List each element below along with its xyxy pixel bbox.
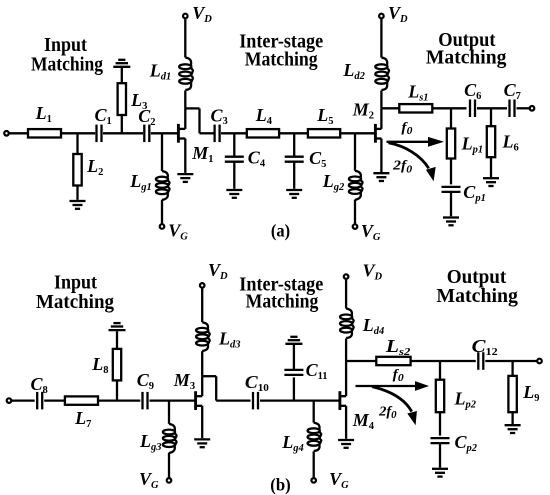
capacitor C11 [284,369,303,371]
transistor M1 [178,124,185,143]
svg-text:Ld1: Ld1 [149,61,172,83]
svg-text:Input: Input [54,273,97,294]
svg-text:Lg2: Lg2 [322,171,345,193]
node VD node (b2) (port) [344,274,349,279]
wire M4 drain line to Ls2 [346,360,376,362]
transistor M3 [196,391,203,410]
wire M3 drain jog top [202,375,216,377]
capacitor Cp1 [442,186,461,188]
inductor Ld3 [196,322,210,351]
svg-text:2f0: 2f0 [392,159,413,176]
wire L1 to C1 [61,132,95,134]
ground [226,190,242,198]
wire Ld2 to VD [380,19,382,58]
inductor Ls2 [376,357,410,365]
svg-text:(b): (b) [270,475,290,495]
svg-text:Ld3: Ld3 [218,329,241,351]
svg-text:C7: C7 [504,80,521,102]
inductor L7 [65,396,98,404]
wire Lg1 to VG [161,200,163,225]
node input port (b) (port) [7,398,12,403]
svg-text:2f0: 2f0 [378,404,397,421]
ground [194,439,210,447]
transistor M4 [340,391,346,410]
wire Lp2 to Cp2 [439,412,441,435]
wire M4 drain to Ld4 [345,339,347,362]
wire C5 to ground [293,162,295,189]
inductor Lg4 [308,423,322,451]
wire junction to C4 [233,133,235,156]
svg-text:Ls1: Ls1 [407,82,428,104]
wire Cp2 to ground [439,443,441,468]
wire junction to L8 [116,380,118,400]
ground [443,218,459,226]
inductor L1 [28,129,61,137]
arrow f0 (b) [356,381,430,391]
svg-text:M3: M3 [173,370,195,392]
wire M3 drain to Ld3 [201,351,203,376]
svg-text:(a): (a) [271,221,290,242]
wire junction to L2 [76,133,78,154]
wire C11 to upper ground [293,345,295,370]
ground [505,425,521,433]
wire L2 to ground [76,186,78,200]
wire Ld3 to VD [201,288,203,322]
wire C2 to M1 gate [151,132,178,134]
node VD node (b1) (port) [200,283,205,288]
wire M1 drain up [184,108,186,128]
capacitor C3 [213,125,215,143]
inductor Lp2 [436,380,444,413]
svg-text:M2: M2 [352,100,374,122]
inductor L2 [73,154,81,186]
svg-text:VG: VG [168,221,188,243]
wire L3 to upper ground [121,68,123,83]
inductor Ld2 [375,58,389,91]
wire M1 drain jog down [198,108,200,133]
svg-text:M1: M1 [191,143,213,165]
node VG node (a1) (port) [160,224,165,229]
capacitor C4 [225,156,244,158]
ground [338,440,354,448]
svg-text:Ld2: Ld2 [342,60,365,82]
svg-text:M4: M4 [352,410,375,432]
wire L8 to upper ground [116,331,118,349]
svg-text:f0: f0 [393,367,405,384]
svg-text:Lp2: Lp2 [454,389,477,411]
svg-text:Matching: Matching [36,292,114,313]
wire M1 drain to C3 [200,132,215,134]
svg-text:VG: VG [361,221,381,243]
wire Ld1 to VD [184,19,186,58]
wire M1 source down [184,139,186,173]
svg-text:C10: C10 [245,372,269,394]
wire junction to Lg3 [168,401,170,424]
capacitor C2 [143,125,145,143]
node VD node (a1) (port) [183,14,188,19]
ground [373,173,389,181]
svg-text:Matching: Matching [245,49,318,70]
wire L7 to C9 [98,399,140,401]
capacitor C7 [508,100,510,118]
node input port (a) (port) [4,131,9,136]
wire junction to L9 [511,361,513,376]
svg-text:Matching: Matching [426,48,507,69]
wire M2 drain up [380,108,382,129]
arrow 2f0 (b) [372,387,417,426]
wire Cp1 to ground [450,192,452,216]
wire junction to Lp1 [450,108,452,128]
svg-text:C4: C4 [248,148,266,170]
wire M1 drain jog top [185,107,199,109]
inductor L9 [508,376,516,412]
svg-text:VD: VD [208,260,228,282]
wire C8 to L7 [44,399,65,401]
inductor Lg3 [163,424,177,453]
wire M3 drain up [201,376,203,396]
svg-text:VG: VG [139,469,159,491]
svg-text:Lg1: Lg1 [129,171,152,193]
node VG node (b1) (port) [167,478,172,483]
svg-text:f0: f0 [401,120,413,137]
ground (upward) [109,323,126,330]
wire junction to C5 [293,133,295,156]
wire Ls2 to C12 [411,360,476,362]
wire junction to Lg1 [161,133,163,171]
svg-text:C5: C5 [309,148,326,170]
capacitor C8 [36,392,38,410]
svg-text:VD: VD [192,3,212,25]
inductor L8 [113,349,121,381]
svg-text:Lg4: Lg4 [281,432,304,454]
inductor Lg2 [349,171,363,200]
svg-text:C2: C2 [138,106,155,128]
capacitor C9 [141,392,143,410]
inductor Ld1 [179,58,193,91]
wire C12 to L9 [485,360,537,362]
wire M2 source down [380,139,382,173]
arrow 2f0 (a) [389,143,436,181]
wire C10 to M4 gate [260,399,339,401]
svg-text:C6: C6 [464,80,481,102]
wire Lg2 to VG [354,200,356,225]
svg-text:Cp1: Cp1 [463,182,486,204]
wire Lp1 to Cp1 [450,159,452,185]
wire junction to L3 [121,115,123,133]
svg-text:VD: VD [363,261,383,283]
wire L4 to L5 [279,132,308,134]
wire C7 to output [517,107,530,109]
svg-text:Matching: Matching [246,292,319,313]
wire M3 source down [201,406,203,438]
svg-text:C3: C3 [211,105,228,127]
node output port (a) (port) [530,106,535,111]
capacitor C10 [252,392,254,410]
svg-text:Input: Input [44,35,87,56]
svg-text:L6: L6 [502,132,519,154]
wire M3 drain to C10 [216,399,250,401]
capacitor C12 [477,352,479,370]
wire input to L1 [9,132,28,134]
capacitor Cp2 [431,437,450,439]
svg-text:L4: L4 [255,105,273,127]
wire junction to Lp2 [439,361,441,380]
wire L5 to M2 gate [340,132,375,134]
wire Ld4 to VD [345,280,347,309]
inductor Ls1 [399,104,432,112]
svg-text:L5: L5 [316,105,333,127]
svg-text:L1: L1 [35,103,52,125]
inductor L6 [487,126,495,157]
svg-text:C8: C8 [31,374,48,396]
ground [432,469,448,477]
wire L6 to ground [490,157,492,177]
wire C4 to ground [233,162,235,189]
ground (upward) [113,60,130,67]
svg-text:C11: C11 [306,360,328,382]
inductor L5 [308,129,340,137]
ground (upward) [285,337,302,344]
wire Ls1 to C6 [432,107,466,109]
node output port (b) (port) [537,359,542,364]
ground [483,178,499,186]
svg-text:L7: L7 [74,408,91,430]
wire L9 to ground [511,412,513,424]
capacitor C1 [95,125,97,143]
wire C9 to M3 gate [150,399,196,401]
ground [286,190,302,198]
wire M4 drain up [345,361,347,396]
svg-text:Ld4: Ld4 [362,315,385,337]
svg-text:Output: Output [447,267,507,288]
svg-text:L2: L2 [86,156,103,178]
wire M3 drain jog down [215,376,217,400]
wire Lg3 to VG [168,453,170,478]
ground [177,174,193,182]
svg-text:Matching: Matching [436,286,518,307]
svg-text:C9: C9 [137,370,154,392]
svg-text:Lp1: Lp1 [461,134,484,156]
capacitor C5 [285,156,304,158]
svg-text:C12: C12 [472,336,498,358]
inductor L4 [247,129,279,137]
svg-text:L8: L8 [91,354,108,376]
inductor Ld4 [340,309,354,339]
svg-text:Matching: Matching [31,55,103,76]
wire M2 drain line to Ls1 [381,107,399,109]
svg-text:Cp2: Cp2 [455,432,478,454]
node VG node (a2) (port) [353,224,358,229]
svg-text:Ls2: Ls2 [385,336,412,358]
svg-text:C1: C1 [95,105,112,127]
wire M4 source down [345,406,347,439]
svg-text:VD: VD [388,3,408,25]
capacitor C6 [469,100,471,118]
inductor Lp1 [447,129,455,159]
wire C6 to C7 [477,107,507,109]
ground [70,201,86,209]
inductor L3 [118,83,126,115]
wire C3 to L4 [221,132,247,134]
transistor M2 [375,124,381,143]
svg-text:L9: L9 [522,382,539,404]
wire junction to C11 [293,377,295,400]
wire C1 to C2 [103,132,143,134]
wire junction to L6 [490,108,492,126]
arrow f0 (a) [387,137,445,147]
wire input to C8 [12,399,35,401]
wire M1 drain to Ld1 [184,91,186,109]
wire Lg4 to VG [313,451,315,478]
inductor Lg1 [156,171,170,200]
node VG node (b2) (port) [311,478,316,483]
wire junction to Lg4 [313,401,315,423]
node VD node (a2) (port) [379,14,384,19]
svg-text:VG: VG [329,469,349,491]
wire junction to Lg2 [354,133,356,171]
svg-text:Lg3: Lg3 [139,431,162,453]
wire M2 drain to Ld2 [380,91,382,109]
